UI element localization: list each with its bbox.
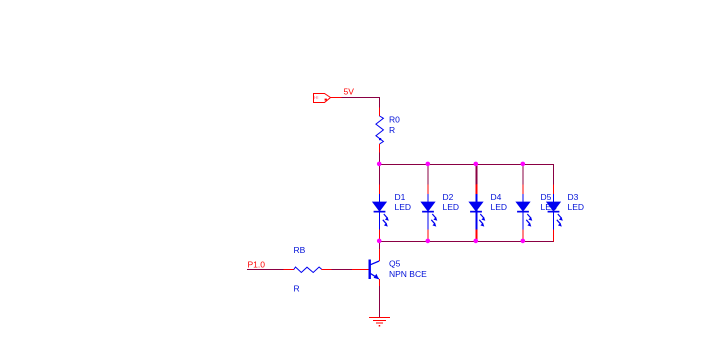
svg-text:D1: D1 bbox=[395, 192, 406, 202]
node top rail at D1 bbox=[377, 162, 382, 167]
svg-text:RB: RB bbox=[294, 245, 306, 255]
svg-text:D4: D4 bbox=[491, 192, 502, 202]
node bottom rail at D2 bbox=[426, 239, 431, 244]
LED D1 bbox=[373, 165, 411, 242]
svg-text:D3: D3 bbox=[568, 192, 579, 202]
svg-text:R: R bbox=[294, 283, 300, 293]
net label 5V bbox=[344, 87, 355, 97]
node top rail at D4 bbox=[474, 162, 479, 167]
LED D4 bbox=[469, 165, 507, 242]
svg-text:P1.0: P1.0 bbox=[248, 259, 266, 269]
LED D5 bbox=[516, 165, 557, 242]
svg-text:D5: D5 bbox=[541, 192, 552, 202]
power terminal 5V bbox=[314, 94, 331, 103]
transistor Q5 bbox=[352, 249, 428, 287]
svg-text:HI: HI bbox=[314, 95, 319, 100]
wire top rail bbox=[380, 165, 554, 176]
svg-text:D2: D2 bbox=[443, 192, 454, 202]
svg-text:LED: LED bbox=[395, 202, 412, 212]
wire 5V horizontal to corner bbox=[342, 98, 380, 109]
wire P1.0 to RB bbox=[247, 269, 284, 271]
wire emitter to ground bbox=[379, 286, 381, 318]
node top rail at D5 bbox=[521, 162, 526, 167]
ground bbox=[369, 318, 390, 327]
svg-text:LED: LED bbox=[443, 202, 460, 212]
svg-text:R: R bbox=[389, 125, 395, 135]
svg-text:Q5: Q5 bbox=[389, 259, 401, 269]
node bottom rail at D5 bbox=[521, 239, 526, 244]
pin of terminal bbox=[331, 97, 342, 99]
svg-text:LED: LED bbox=[491, 202, 508, 212]
svg-text:5V: 5V bbox=[344, 87, 355, 97]
node top rail at D2 bbox=[426, 162, 431, 167]
net label P1.0 bbox=[248, 259, 266, 269]
LED D2 bbox=[421, 165, 459, 242]
resistor R0 bbox=[376, 108, 400, 154]
node bottom rail at D4 bbox=[474, 239, 479, 244]
svg-text:R0: R0 bbox=[389, 115, 400, 125]
wire bottom rail bbox=[380, 230, 554, 242]
wire R0 to top rail bbox=[379, 153, 381, 165]
resistor RB bbox=[284, 245, 333, 293]
svg-text:LED: LED bbox=[568, 202, 585, 212]
LED D3 bbox=[547, 165, 584, 242]
svg-text:NPN BCE: NPN BCE bbox=[389, 269, 427, 279]
wire RB to base bbox=[332, 269, 353, 271]
wire collector to bottom rail bbox=[379, 242, 381, 250]
node bottom rail at D1 bbox=[377, 239, 382, 244]
